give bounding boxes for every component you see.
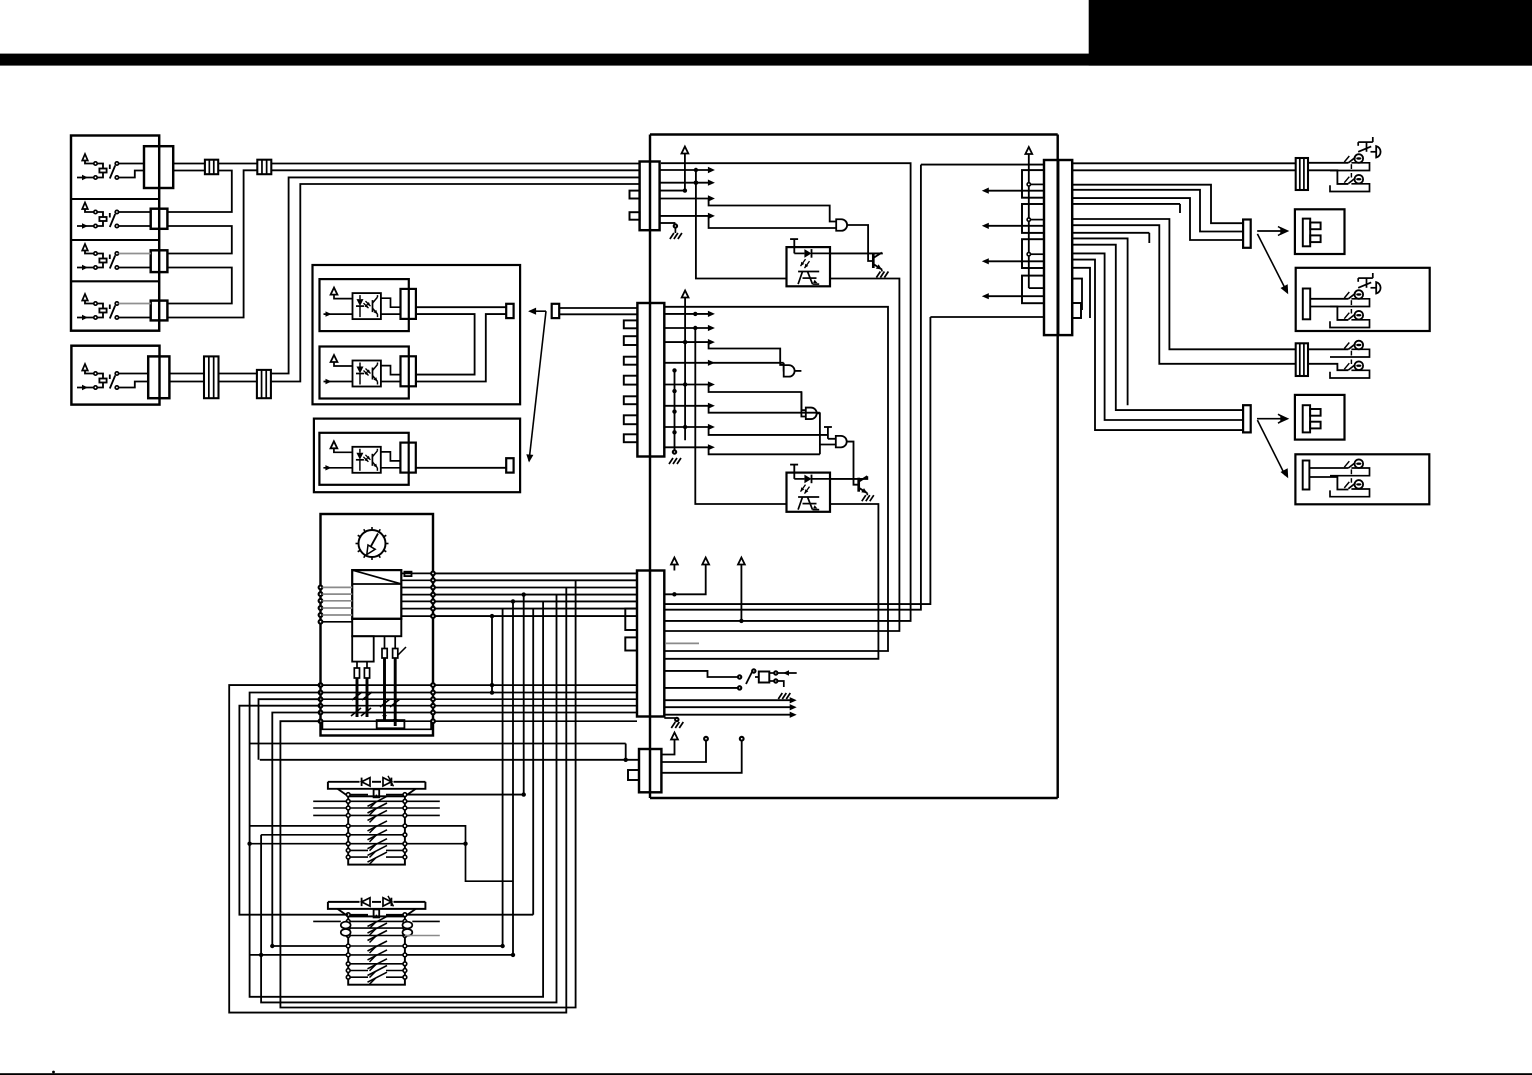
annotation arrow to box J — [1257, 414, 1289, 423]
CN202 power rail — [683, 298, 687, 441]
timer bus wires — [322, 685, 431, 721]
connector CN2 inline — [257, 160, 271, 175]
wire S2 contacts — [119, 212, 151, 226]
wire G2 to G3 — [795, 371, 806, 417]
switch S4 — [77, 294, 119, 320]
wire U1 triac output — [664, 279, 899, 632]
wire bus3 (S5 top riser) — [169, 177, 639, 373]
wire column c1 — [490, 614, 494, 695]
annotation arrow to box G — [1257, 227, 1289, 236]
photocoupler PC3 unit — [319, 433, 415, 485]
wire G1 to Q1 base — [848, 225, 874, 261]
power triangle above CN201 — [682, 147, 689, 154]
wire RY1 coil feed — [407, 592, 526, 796]
timer IC block — [352, 570, 401, 636]
RY1 stub wires — [313, 801, 440, 815]
CN203 ground — [664, 718, 683, 728]
wire CN201 out4 (to gate) — [660, 195, 837, 221]
wire RY2 top feed — [407, 609, 533, 915]
power switch box frame — [71, 346, 159, 405]
T-bar input G4 — [824, 427, 836, 439]
power triangles above CN203 — [671, 558, 745, 565]
wire CN301 to CN304 stairs — [1072, 219, 1296, 364]
wire CN304 to J3 — [1308, 349, 1348, 370]
AND gate G4 — [836, 436, 847, 448]
annotation arrow to box K — [1257, 420, 1288, 478]
photocoupler PC1 unit — [320, 279, 416, 331]
jack J3 — [1330, 341, 1370, 378]
timer inner bottom wire — [322, 721, 431, 729]
wire G3 to G4 — [817, 413, 836, 454]
wire CN201 to opto-triac U1 — [694, 170, 787, 279]
AND gate G3 — [806, 408, 817, 420]
wire PC1 to output connector — [416, 306, 506, 308]
wire CN301 in-arrow 4 — [982, 293, 1044, 299]
connector CN104 — [151, 301, 168, 321]
relay RY1 with diodes D1 D2 — [328, 776, 426, 865]
wire RY2 row5 loop — [270, 609, 505, 949]
wire CN202 out2 — [664, 325, 715, 331]
timer right terminals — [401, 572, 637, 618]
wires in box H — [1310, 299, 1348, 320]
headphone jack J2 — [1330, 273, 1381, 328]
annotation arrow CN7-CN8 mating — [526, 308, 546, 463]
wire RY2 row6 loop — [250, 599, 516, 957]
wire loop F — [280, 580, 575, 1007]
connector in box K — [1303, 461, 1310, 490]
Q2 emitter ground — [862, 493, 874, 501]
connector CN8 — [506, 458, 513, 472]
CN301 right tab — [1072, 303, 1081, 318]
timer bus terminals right — [431, 683, 435, 723]
wires in box K — [1309, 468, 1348, 490]
timer unit box — [321, 514, 434, 736]
Q1 emitter ground — [876, 270, 888, 278]
connector CN305 — [1243, 405, 1251, 432]
wire RY1 row6 loop — [261, 834, 346, 836]
CN204 top terminals — [661, 737, 743, 773]
wire S4 contacts — [119, 304, 151, 318]
wire net V2 — [664, 165, 1044, 610]
connector CN4 inline — [257, 370, 271, 398]
wire loop B — [250, 601, 543, 996]
wire cell3 to cell4 daisy — [167, 268, 231, 304]
wire loop D — [239, 706, 348, 915]
wire CN201 out2 — [660, 180, 715, 186]
photocoupler outer box 2 — [314, 419, 520, 493]
Q1 collector wire to U1 — [830, 252, 882, 255]
headphone jack J1 — [1330, 137, 1381, 192]
photocoupler PC2 unit — [320, 347, 416, 399]
remote box K — [1295, 454, 1429, 504]
wire long lower bus — [250, 743, 626, 745]
wire S5 contacts — [119, 374, 149, 388]
wire S1 contacts to CN101 — [119, 164, 144, 178]
annotation arrow CN303 to box H — [1257, 234, 1288, 294]
connector in box J — [1303, 405, 1321, 432]
wire net V4 — [664, 317, 1044, 604]
wire CN202 out4 to G2 — [664, 360, 783, 372]
switch S1 — [77, 154, 119, 180]
wire cell1 bottom daisy — [167, 171, 231, 213]
wire PC3 output — [416, 467, 506, 469]
connector CN204 — [639, 749, 661, 792]
wire CN301 lower stubs — [1072, 268, 1090, 318]
clock symbol M1 — [356, 527, 389, 560]
wire into CN204 left — [260, 758, 639, 762]
footer rule — [0, 1071, 1532, 1075]
Q2 collector wire to U2 — [830, 476, 867, 479]
wire S3 contacts — [119, 254, 151, 268]
wire bus2 (cell4 bottom riser) — [167, 170, 639, 317]
wire CN202 out8 — [664, 444, 820, 454]
CN203 power stubs — [664, 565, 743, 624]
switch S6 circuit — [664, 669, 796, 699]
wire CN202 to U2 left — [695, 328, 786, 504]
relay RY2 with diodes D3 D4 — [328, 896, 426, 985]
switch S5 — [77, 364, 119, 390]
wire CN201 out5 (to gate) — [660, 213, 837, 228]
remote box J — [1295, 395, 1345, 440]
connector CN103 — [151, 250, 168, 272]
switch S2 — [77, 203, 119, 229]
grey service wire — [433, 611, 699, 643]
wire CN301 in-arrow 1 — [982, 188, 1044, 194]
connector CN303 — [1243, 220, 1251, 248]
CN202 tabs — [624, 320, 638, 442]
wire PC2 to output connector — [416, 314, 506, 381]
CN204 power stub — [661, 740, 674, 755]
timer bus terminals left — [319, 683, 323, 723]
wire U2 triac output — [664, 504, 878, 659]
timer bus extensions to CN203 — [435, 685, 637, 721]
header rule bar — [0, 54, 1532, 66]
component R1 — [404, 572, 411, 576]
CN202 ground rail — [669, 368, 681, 464]
wire CN7 to CN201 pair — [559, 308, 637, 314]
wire RY1 row5 loop — [250, 826, 513, 881]
connector CN7 (cable side) — [552, 304, 560, 318]
timer left terminals — [319, 586, 353, 624]
jack J4 — [1330, 459, 1370, 496]
CN301 tabs — [1022, 170, 1044, 303]
CN201 power rail — [683, 154, 687, 193]
wire CN202 out6 — [664, 403, 820, 413]
wire CN201 out1 — [660, 167, 715, 173]
remote box G — [1295, 209, 1345, 254]
connector CN202 — [637, 303, 664, 457]
connector CN301 — [1044, 160, 1072, 335]
wire loop C — [259, 699, 321, 760]
wire CN301 to CN302 pair — [1072, 163, 1348, 184]
main board box outline — [650, 135, 1058, 799]
connector CN3 inline — [204, 356, 219, 398]
transistor Q1 — [873, 253, 882, 270]
connector CN6 (board side) — [506, 304, 513, 318]
AND gate G1 — [836, 219, 847, 231]
wire CN301 to CN305 stairs — [1072, 238, 1243, 430]
wire CN202 out7 — [664, 424, 828, 435]
wire net V3 — [664, 307, 888, 651]
power triangle above CN204 — [671, 733, 678, 740]
connector CN304 inline — [1296, 343, 1308, 376]
wire CN204 riser — [625, 744, 627, 760]
wire CN202 out1 — [664, 311, 715, 317]
wire bus1 (S1 top to CN201) — [173, 163, 639, 165]
transistor Q2 — [859, 476, 868, 493]
photocoupler outer box 1 — [313, 265, 521, 404]
remote box H — [1296, 268, 1430, 331]
wire G4 to Q2 base — [847, 442, 858, 485]
switch S3 — [77, 244, 119, 270]
connector CN1 inline — [205, 160, 218, 175]
CN203 tabs — [625, 609, 637, 651]
wire CN301 to CN303 stairs — [1072, 185, 1243, 240]
wire CN301 in-arrow 3 — [982, 258, 1044, 264]
CN301 power rail — [1027, 154, 1044, 288]
connector CN101 — [144, 146, 173, 188]
connector CN102 — [151, 209, 168, 229]
connector in box H — [1303, 289, 1310, 320]
RY2 coil bumps — [313, 921, 440, 935]
connector in box G — [1303, 219, 1321, 247]
AND gate G2 — [784, 365, 795, 377]
wire bus4 (S5 bottom riser) — [169, 184, 639, 382]
header title block (black) — [1089, 0, 1532, 66]
wire cell2 to cell3 daisy — [167, 226, 231, 254]
timer coil legs — [351, 636, 406, 728]
wire net V1 — [661, 163, 911, 621]
wire CN202 out3 to G2 — [664, 339, 783, 365]
wire CN202 out5 to G3 — [664, 381, 806, 410]
connector CN105 — [148, 356, 169, 398]
wire CN301 in-arrow 2 — [982, 223, 1044, 229]
connector CN302 inline — [1296, 158, 1308, 190]
wire RY1 row7 loop — [247, 842, 465, 846]
connector CN203 — [637, 571, 664, 717]
connector CN201 — [640, 162, 660, 231]
wire loop A — [229, 588, 566, 1013]
CN201 tabs — [630, 191, 640, 220]
opto-triac U2 — [787, 465, 831, 512]
CN204 tab — [628, 770, 639, 780]
power triangle above CN202 — [682, 291, 689, 298]
wire PC1 to PC2 link — [416, 314, 475, 375]
wire loop G — [261, 595, 556, 1003]
wire CN203 out arrows — [664, 697, 796, 718]
CN201 ground — [660, 223, 682, 239]
power triangle CN301 — [1025, 147, 1032, 154]
wire loop E — [272, 713, 320, 947]
cassette mechanism switch box frame — [71, 136, 159, 331]
opto-triac U1 — [787, 239, 831, 286]
wire CN201 out3 — [660, 190, 685, 192]
